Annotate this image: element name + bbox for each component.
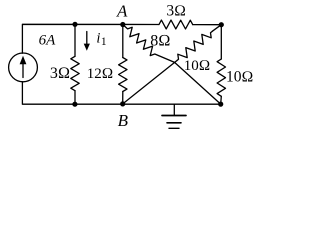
wire diag 10ohm to top right node <box>212 25 221 32</box>
current source I1 6A circle <box>9 53 38 82</box>
svg-text:3Ω: 3Ω <box>166 3 186 20</box>
svg-text:10Ω: 10Ω <box>226 68 253 85</box>
node B dot <box>120 101 125 106</box>
svg-text:6A: 6A <box>39 32 57 48</box>
node top 3ohm dot <box>72 22 77 27</box>
node A dot <box>120 22 125 27</box>
resistor 12ohm branch: wire, zigzag, wire <box>122 25 124 58</box>
node top right dot <box>219 22 224 27</box>
resistor 3ohm left branch: wire, zigzag, wire <box>74 24 76 56</box>
wire node B to diag 10ohm <box>123 61 177 104</box>
svg-text:12Ω: 12Ω <box>87 66 114 82</box>
svg-text:10Ω: 10Ω <box>184 58 211 74</box>
wire top rail right <box>193 24 222 26</box>
svg-text:3Ω: 3Ω <box>50 65 70 82</box>
svg-text:8Ω: 8Ω <box>150 32 170 49</box>
node bottom 3ohm dot <box>72 102 77 107</box>
svg-text:i1: i1 <box>96 30 106 48</box>
node bottom right dot <box>218 102 223 107</box>
ground <box>173 104 175 115</box>
svg-text:B: B <box>118 111 129 130</box>
current arrow i1 <box>86 32 88 46</box>
resistor R top 3ohm zigzag <box>159 20 193 29</box>
resistor 8ohm diagonal from node A <box>123 25 175 63</box>
resistor 10ohm diagonal <box>177 31 212 60</box>
wire top rail left <box>22 24 159 53</box>
resistor 10ohm right branch: wire, zigzag, wire <box>220 25 222 59</box>
wire bottom rail <box>22 82 220 104</box>
current source arrow <box>22 63 24 78</box>
svg-text:A: A <box>116 2 128 21</box>
wire node Q to bottom right <box>175 62 221 104</box>
